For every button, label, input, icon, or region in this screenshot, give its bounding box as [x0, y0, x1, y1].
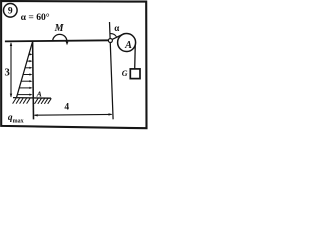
- svg-text:α = 60°: α = 60°: [21, 12, 50, 23]
- svg-text:α: α: [114, 23, 119, 33]
- load arrow 4: [23, 74, 30, 76]
- ground hatching right group: [35, 98, 39, 104]
- load arrow 5: [21, 80, 30, 82]
- dimension line 4 (horizontal): [35, 113, 112, 116]
- ground line at support A: [13, 97, 51, 100]
- load arrow 6: [19, 87, 30, 89]
- beam (horizontal bar): [5, 40, 111, 41]
- load arrow 2: [27, 60, 30, 62]
- border frame: [1, 1, 146, 128]
- load arrow 7: [17, 94, 30, 96]
- svg-text:4: 4: [64, 103, 69, 113]
- moment M arrowhead: [66, 41, 69, 45]
- load triangle hypotenuse: [17, 43, 33, 98]
- svg-text:9: 9: [8, 7, 13, 17]
- right extension line (vertical through hinge): [110, 22, 114, 119]
- dimension line 3 (vertical): [10, 43, 12, 97]
- rope down from pulley: [134, 43, 137, 69]
- ground hatching left group: [13, 98, 17, 104]
- angle arc alpha: [110, 34, 117, 38]
- rope from hinge to pulley: [111, 34, 125, 41]
- svg-text:M: M: [54, 23, 65, 34]
- weight square G: [130, 69, 140, 79]
- moment M arc: [53, 34, 67, 41]
- svg-text:A: A: [36, 90, 42, 99]
- load arrow 3: [25, 67, 30, 69]
- svg-text:G: G: [122, 69, 128, 78]
- load arrow 1: [29, 53, 31, 55]
- svg-text:3: 3: [5, 68, 10, 79]
- problem number circle 9: [4, 4, 18, 18]
- svg-text:A: A: [124, 40, 132, 51]
- post (vertical column): [32, 41, 35, 119]
- hinge circle at beam end: [108, 39, 112, 43]
- pulley circle A: [118, 34, 136, 52]
